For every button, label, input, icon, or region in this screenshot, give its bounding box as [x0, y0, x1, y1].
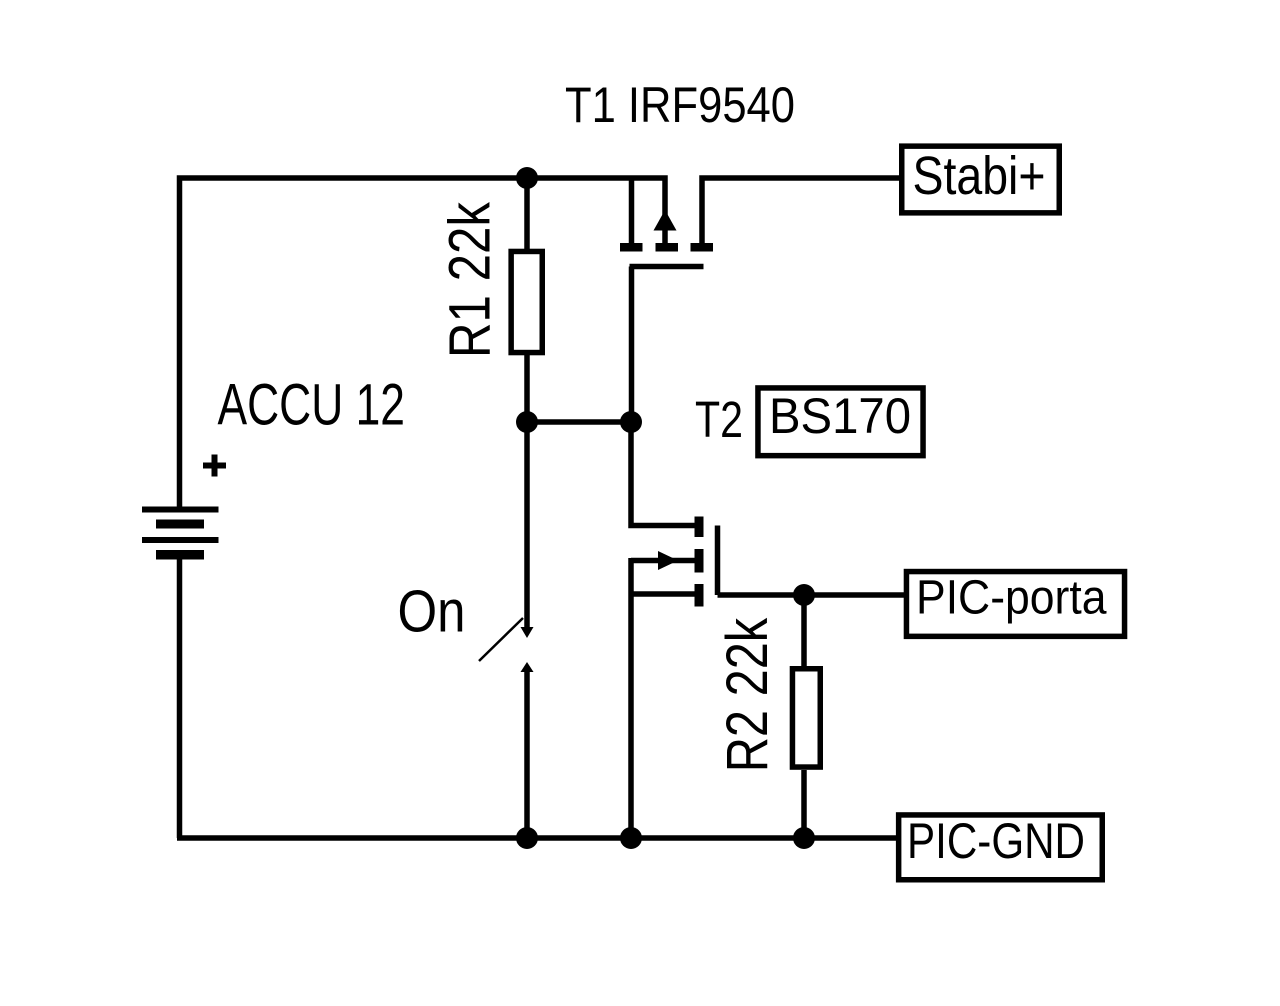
- wire: junction to R2: [801, 595, 807, 666]
- wire: gate lead down to junction: [629, 267, 635, 423]
- switch S1 On: [479, 422, 534, 838]
- wire: upper switch lead: [524, 422, 530, 629]
- battery B1 ACCU 12: [142, 507, 219, 560]
- wire: source lead: [631, 591, 699, 597]
- T1 body bar: [656, 243, 679, 252]
- wire: source stub from rail: [629, 178, 635, 243]
- svg-text:R2 22k: R2 22k: [715, 617, 780, 772]
- svg-text:T2: T2: [695, 391, 743, 448]
- wire: left rail lower segment: [177, 559, 183, 838]
- battery plus polarity mark: [203, 455, 226, 477]
- switch lever: [479, 618, 523, 661]
- wire: bottom ground rail: [177, 835, 896, 841]
- T1 body arrow (points up): [654, 210, 677, 231]
- node: top rail junction: [516, 167, 538, 189]
- T1 source bar: [620, 243, 643, 252]
- svg-text:T1 IRF9540: T1 IRF9540: [565, 77, 795, 133]
- terminal box Stabi+: [902, 146, 1060, 213]
- node: T1 gate / T2 drain junction: [620, 411, 642, 433]
- wire: body/source down to ground: [628, 558, 634, 838]
- T1 gate line: [630, 264, 704, 270]
- resistor R1: [511, 251, 542, 352]
- wire: left rail + top rail into T1 body corner: [180, 178, 666, 507]
- T2 body bar: [695, 549, 704, 573]
- svg-text:PIC-porta: PIC-porta: [916, 572, 1107, 625]
- switch lower contact arrow: [521, 662, 534, 672]
- wire: lower switch lead: [524, 671, 530, 838]
- T2 drain bar: [695, 517, 704, 538]
- T2 body arrow (points right): [658, 551, 678, 570]
- wire: gate lead to PIC-porta: [718, 592, 905, 598]
- wire: body lead: [631, 558, 699, 564]
- node: R1 bottom junction: [516, 411, 538, 433]
- T2 gate line: [715, 526, 721, 596]
- switch upper contact arrow: [521, 627, 534, 638]
- resistor R2: [792, 669, 820, 767]
- value box BS170: [758, 388, 923, 456]
- T1 drain bar: [691, 243, 714, 252]
- svg-text:On: On: [398, 579, 466, 645]
- svg-text:BS170: BS170: [769, 388, 911, 444]
- wire: drain from junction: [631, 422, 699, 526]
- svg-text:PIC-GND: PIC-GND: [907, 813, 1085, 869]
- terminal box PIC-porta: [906, 572, 1124, 637]
- svg-text:Stabi+: Stabi+: [913, 146, 1046, 206]
- node: T2 source/ground junction: [620, 827, 642, 849]
- node: R2/ground junction: [793, 827, 815, 849]
- wire: drain up to Stabi+ rail: [702, 178, 899, 243]
- svg-text:ACCU 12: ACCU 12: [218, 373, 406, 438]
- wire: R1 to junction: [524, 355, 530, 422]
- node: PIC-porta junction: [793, 584, 815, 606]
- wire: junction link: [527, 419, 631, 425]
- wire: R2 to ground rail: [801, 770, 807, 838]
- transistor T1 IRF9540 (P-MOSFET): [620, 178, 899, 422]
- T2 source bar: [695, 584, 704, 607]
- transistor T2 BS170 (N-MOSFET, rotated): [631, 422, 904, 838]
- svg-text:R1 22k: R1 22k: [437, 201, 502, 358]
- terminal box PIC-GND: [899, 815, 1103, 880]
- node: switch/ground junction: [516, 827, 538, 849]
- wire: top rail to R1: [524, 178, 530, 249]
